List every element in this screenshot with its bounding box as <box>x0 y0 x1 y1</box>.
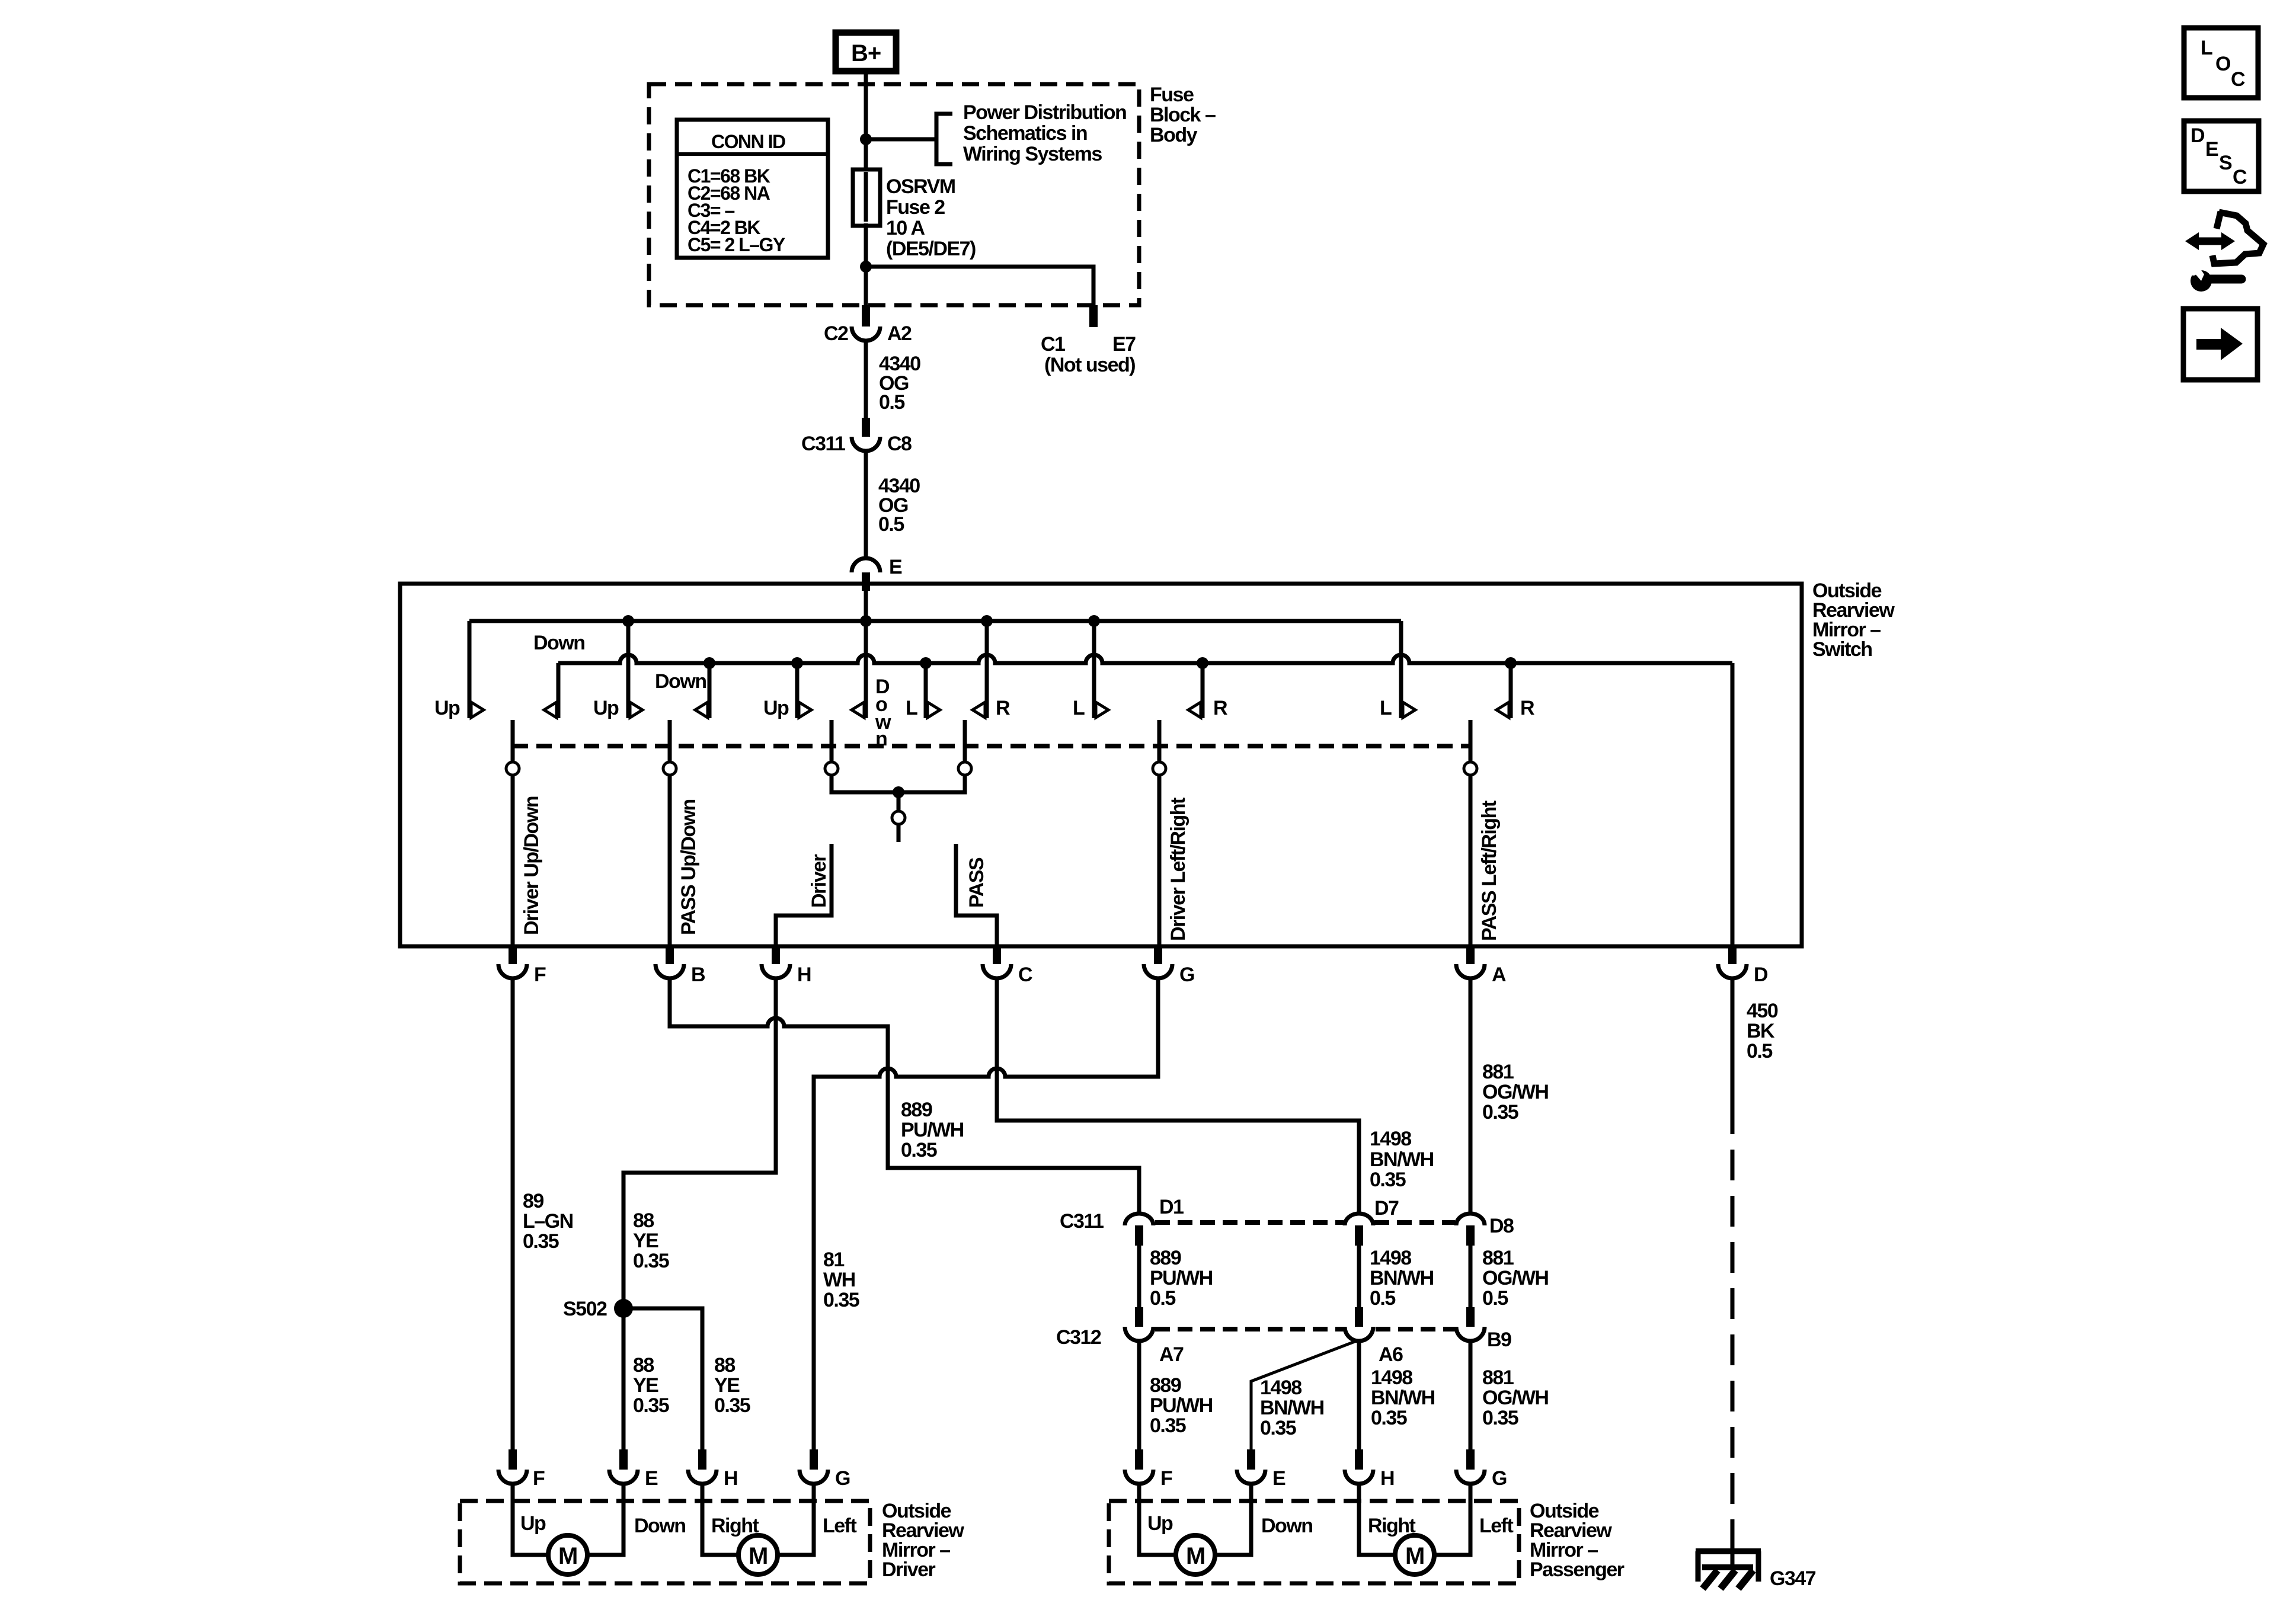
motor M driver left/right <box>738 1535 778 1574</box>
svg-text:0.35: 0.35 <box>714 1394 750 1417</box>
label OSRVM Fuse 2 10 A (DE5/DE7) <box>886 175 976 260</box>
svg-text:G: G <box>1179 964 1194 986</box>
node dot rail2 x1562 <box>920 657 932 669</box>
wire F to passenger up/down motor <box>1139 1482 1176 1555</box>
svg-text:M: M <box>749 1543 768 1569</box>
connector F pin stub <box>509 946 517 964</box>
svg-text:CONN ID: CONN ID <box>711 131 785 152</box>
svg-text:PASS Up/Down: PASS Up/Down <box>677 799 700 935</box>
svg-text:L: L <box>2201 37 2212 59</box>
passenger mirror connector F pin stub <box>1135 1449 1143 1470</box>
B+ battery feed symbol <box>836 33 896 71</box>
svg-text:S502: S502 <box>563 1298 607 1320</box>
svg-text:Down: Down <box>634 1515 686 1537</box>
Outside Rearview Mirror Driver dashed box <box>460 1501 870 1583</box>
contact triangle center Down <box>852 702 864 718</box>
svg-text:D7: D7 <box>1374 1197 1399 1219</box>
contact triangle Up 3 <box>799 702 811 718</box>
node dot rail1 x1665 <box>981 615 993 627</box>
contact triangle Down 2 <box>695 702 708 718</box>
svg-text:PASS Left/Right: PASS Left/Right <box>1478 801 1501 941</box>
contact triangle R 2 <box>1188 702 1201 718</box>
contact stub Up 3 <box>795 663 800 718</box>
svg-text:881: 881 <box>1482 1061 1514 1083</box>
wire 889 PU/WH 0.35 to passenger F <box>1137 1341 1141 1449</box>
label 4340 OG 0.5 <box>879 353 920 414</box>
svg-text:C312: C312 <box>1056 1326 1101 1349</box>
mechanical link dashed line <box>513 744 1470 748</box>
icon DESC box <box>2184 121 2259 191</box>
contact triangle Down 1 <box>544 702 557 718</box>
wire F to driver up/down motor <box>513 1482 548 1555</box>
svg-text:1498: 1498 <box>1260 1377 1302 1399</box>
svg-text:C: C <box>2231 68 2245 91</box>
wire pole to G <box>1157 775 1162 946</box>
driver mirror connector G pin stub <box>810 1449 818 1470</box>
svg-text:Block –: Block – <box>1150 104 1216 126</box>
connector A pin stub <box>1466 946 1475 964</box>
wire 1498 BN/WH 0.5 between connectors <box>1357 1246 1361 1307</box>
svg-text:E: E <box>889 556 902 578</box>
wire to Power Distribution reference bracket <box>866 137 935 142</box>
svg-text:WH: WH <box>823 1269 855 1291</box>
wire bus rail 2 with hops <box>558 655 1732 663</box>
wire H to passenger left/right motor <box>1359 1482 1395 1555</box>
wire 89 L-GN from F down to mirror <box>511 978 515 1449</box>
node: junction dot below fuse <box>860 261 872 273</box>
svg-text:1498: 1498 <box>1371 1366 1412 1389</box>
node dot selector yoke center <box>893 786 904 798</box>
node dot rail2 x1197 <box>703 657 715 669</box>
connector C <box>983 964 1011 978</box>
svg-text:88: 88 <box>714 1354 735 1377</box>
driver mirror connector F pin stub <box>509 1449 517 1470</box>
selector common circle <box>892 811 905 824</box>
label 89 L-GN 0.35 <box>523 1190 573 1253</box>
node dot rail1 x1060 <box>622 615 634 627</box>
svg-text:PU/WH: PU/WH <box>1150 1267 1213 1289</box>
svg-text:1498: 1498 <box>1370 1128 1411 1150</box>
icon forward arrow box <box>2183 309 2257 380</box>
label 881 OG/WH 0.35 (lower) <box>1482 1366 1548 1429</box>
selector pole right wire <box>963 720 967 762</box>
svg-text:F: F <box>534 964 546 986</box>
pole circle PASS Left/Right <box>1464 762 1477 775</box>
label Outside Rearview Mirror - Switch <box>1812 580 1895 661</box>
contact stub R 3 <box>1509 663 1513 718</box>
svg-text:Down: Down <box>1261 1515 1313 1537</box>
svg-text:S: S <box>2219 152 2232 174</box>
svg-text:Driver: Driver <box>808 854 830 908</box>
svg-text:A: A <box>1492 964 1506 986</box>
pin D7 stub <box>1355 1225 1363 1246</box>
svg-text:C311: C311 <box>1060 1210 1104 1233</box>
label 881 OG/WH 0.35 (upper) <box>1482 1061 1548 1124</box>
label 81 WH 0.35 <box>823 1249 859 1311</box>
connector F <box>498 964 527 978</box>
connector D pin stub <box>1728 946 1737 964</box>
passenger mirror connector H pin stub <box>1355 1449 1363 1470</box>
svg-text:R: R <box>996 697 1010 719</box>
svg-text:Power Distribution: Power Distribution <box>963 101 1126 124</box>
contact triangle R 3 <box>1496 702 1509 718</box>
svg-text:OSRVM: OSRVM <box>886 175 955 198</box>
label Power Distribution Schematics in Wiring Systems <box>963 101 1126 165</box>
pole circle Driver Left/Right <box>1153 762 1166 775</box>
svg-text:Down: Down <box>533 632 585 654</box>
wire 81 WH from G with hops to bottom G <box>814 978 1158 1449</box>
svg-text:YE: YE <box>633 1230 658 1252</box>
svg-text:0.35: 0.35 <box>1260 1417 1296 1439</box>
label 889 PU/WH 0.5 <box>1150 1247 1213 1310</box>
wire 881 OG/WH from A to D8 <box>1469 978 1473 1214</box>
wire 889 PU/WH 0.5 between connectors <box>1137 1246 1141 1307</box>
svg-text:E: E <box>2205 138 2218 161</box>
connector row C311 dashed line <box>1155 1220 1455 1225</box>
wire E to driver up/down motor <box>587 1482 623 1555</box>
connector C2/A2 pin stub <box>862 305 870 327</box>
label 1498 BN/WH 0.35 (upper) <box>1370 1128 1434 1191</box>
svg-text:Driver Up/Down: Driver Up/Down <box>520 796 543 935</box>
connector H <box>762 964 790 978</box>
contact PASS (bent wire to C) <box>956 844 997 946</box>
svg-text:L: L <box>906 697 917 719</box>
svg-text:M: M <box>1405 1543 1424 1569</box>
svg-text:889: 889 <box>901 1099 932 1121</box>
svg-text:88: 88 <box>633 1209 654 1232</box>
wire 1498 BN/WH diagonal branch to passenger E <box>1251 1340 1358 1449</box>
label D o w n (vertical stack) <box>875 676 891 750</box>
pole wire Driver Left/Right <box>1157 720 1162 762</box>
svg-text:881: 881 <box>1482 1247 1514 1269</box>
svg-text:0.5: 0.5 <box>1370 1287 1395 1310</box>
svg-text:D8: D8 <box>1489 1215 1514 1237</box>
svg-text:D: D <box>2191 124 2205 147</box>
svg-text:D1: D1 <box>1159 1196 1184 1218</box>
svg-text:H: H <box>797 964 811 986</box>
svg-text:BN/WH: BN/WH <box>1370 1148 1434 1171</box>
pole circle Driver Up/Down <box>506 762 519 775</box>
svg-text:Up: Up <box>593 697 619 719</box>
node dot rail1 x1461 <box>860 615 872 627</box>
svg-text:O: O <box>2215 53 2231 75</box>
svg-text:450: 450 <box>1747 1000 1778 1022</box>
wire 889 PU/WH from B with hop over H wire <box>670 978 1139 1214</box>
label 1498 BN/WH 0.5 <box>1370 1247 1434 1310</box>
pin D8 stub <box>1466 1225 1475 1246</box>
connector G pin stub <box>1154 946 1162 964</box>
pole wire PASS Left/Right <box>1469 720 1473 762</box>
contact triangle L 2 <box>1096 702 1108 718</box>
svg-text:0.35: 0.35 <box>1370 1169 1406 1191</box>
svg-text:889: 889 <box>1150 1374 1181 1397</box>
svg-text:BN/WH: BN/WH <box>1371 1387 1435 1409</box>
svg-text:Up: Up <box>763 697 789 719</box>
label 88 YE 0.35 (right branch) <box>714 1354 750 1417</box>
Outside Rearview Mirror Switch box <box>400 584 1802 946</box>
svg-text:0.35: 0.35 <box>1482 1101 1518 1124</box>
contact stub Up 2 <box>626 621 631 718</box>
node: junction dot on B+ wire <box>860 133 872 145</box>
svg-text:1498: 1498 <box>1370 1247 1411 1269</box>
wire E to passenger up/down motor <box>1215 1482 1251 1555</box>
svg-text:R: R <box>1213 697 1227 719</box>
selector common wire upper <box>897 792 901 811</box>
wire pole to B <box>668 775 672 946</box>
svg-text:0.5: 0.5 <box>1482 1287 1508 1310</box>
svg-text:C: C <box>1018 964 1032 986</box>
svg-text:C311: C311 <box>801 433 845 455</box>
svg-text:PASS: PASS <box>965 857 988 908</box>
passenger mirror connector G <box>1456 1470 1485 1484</box>
driver mirror connector G <box>800 1470 828 1484</box>
svg-text:0.5: 0.5 <box>878 513 904 536</box>
node dot rail2 x2029 <box>1197 657 1208 669</box>
node dot rail1 x1846 <box>1088 615 1100 627</box>
svg-text:Driver Left/Right: Driver Left/Right <box>1167 798 1189 941</box>
svg-text:Schematics in: Schematics in <box>963 122 1087 145</box>
pin A7 stub upper <box>1135 1307 1143 1327</box>
svg-text:G347: G347 <box>1770 1567 1816 1590</box>
connector H pin stub <box>772 946 780 964</box>
contact stub L 1 <box>924 663 928 718</box>
label 1498 BN/WH 0.35 (diagonal branch) <box>1260 1377 1324 1439</box>
wire bus rail 1 <box>469 619 1401 623</box>
wire 881 OG/WH 0.5 between connectors <box>1469 1246 1473 1307</box>
connector C311 pin D1 <box>1125 1214 1153 1225</box>
svg-text:0.5: 0.5 <box>879 391 904 414</box>
svg-text:OG/WH: OG/WH <box>1482 1387 1548 1409</box>
svg-text:G: G <box>835 1467 850 1490</box>
svg-text:A7: A7 <box>1159 1343 1184 1366</box>
svg-text:F: F <box>533 1467 545 1490</box>
contact Driver (bent wire to H) <box>776 844 832 946</box>
svg-text:0.35: 0.35 <box>633 1394 669 1417</box>
svg-text:E: E <box>645 1467 658 1490</box>
wire 81 WH from C down to D7 <box>997 978 1359 1214</box>
connector G <box>1144 964 1172 978</box>
svg-text:PU/WH: PU/WH <box>901 1119 964 1141</box>
pin A6 stub upper <box>1355 1307 1363 1327</box>
svg-text:OG/WH: OG/WH <box>1482 1267 1548 1289</box>
wire G to driver left/right motor <box>778 1482 814 1555</box>
svg-text:Fuse: Fuse <box>1150 84 1194 106</box>
svg-text:Left: Left <box>823 1515 857 1537</box>
connector D <box>1718 964 1747 978</box>
connector C312 pin A7 <box>1125 1327 1153 1341</box>
contact triangle R 1 <box>973 702 985 718</box>
label 1498 BN/WH 0.35 (lower) <box>1371 1366 1435 1429</box>
label 881 OG/WH 0.5 <box>1482 1247 1548 1310</box>
pin B9 stub upper <box>1466 1307 1475 1327</box>
wire H to driver left/right motor <box>702 1482 738 1555</box>
svg-text:89: 89 <box>523 1190 543 1212</box>
wire dot to fuse <box>864 139 868 170</box>
node dot rail2 x2549 <box>1505 657 1517 669</box>
wire 88 YE from H to S502 <box>623 978 776 1308</box>
svg-text:C2: C2 <box>824 322 848 345</box>
svg-text:0.35: 0.35 <box>1371 1407 1407 1429</box>
svg-text:L–GN: L–GN <box>523 1210 573 1233</box>
svg-text:Down: Down <box>655 670 706 693</box>
label Fuse Block - Body <box>1150 84 1216 146</box>
svg-text:C8: C8 <box>887 433 912 455</box>
svg-text:B9: B9 <box>1487 1329 1511 1351</box>
svg-text:0.35: 0.35 <box>901 1139 937 1161</box>
svg-text:BN/WH: BN/WH <box>1370 1267 1434 1289</box>
passenger mirror connector H <box>1345 1470 1373 1484</box>
pin E stub into switch <box>862 572 870 591</box>
svg-text:Passenger: Passenger <box>1530 1558 1625 1581</box>
label 450 BK 0.5 <box>1747 1000 1778 1062</box>
label 4340 OG 0.5 <box>878 475 920 536</box>
fuse OSRVM Fuse 2 10 A <box>853 169 880 226</box>
svg-text:L: L <box>1380 697 1392 719</box>
svg-text:E7: E7 <box>1112 333 1136 356</box>
label 889 PU/WH 0.35 (lower) <box>1150 1374 1213 1437</box>
contact stub Up 1 <box>468 621 472 718</box>
svg-text:B+: B+ <box>851 40 881 66</box>
svg-text:Fuse 2: Fuse 2 <box>886 196 945 219</box>
svg-text:10 A: 10 A <box>886 217 925 239</box>
selector pole left wire <box>830 720 834 762</box>
svg-text:H: H <box>724 1467 737 1490</box>
wire 88 YE S502 right branch to H <box>623 1308 702 1449</box>
wire fuse to box bottom <box>864 223 868 305</box>
icon LOC box <box>2184 28 2258 98</box>
svg-text:PU/WH: PU/WH <box>1150 1394 1213 1417</box>
bracket Power Distribution reference <box>936 114 952 164</box>
svg-text:R: R <box>1520 697 1534 719</box>
svg-text:H: H <box>1380 1467 1394 1490</box>
connector C312 pin B9 <box>1456 1327 1485 1341</box>
motor M passenger left/right <box>1395 1535 1434 1574</box>
svg-text:A6: A6 <box>1379 1343 1403 1366</box>
connector A <box>1456 964 1485 978</box>
svg-text:A2: A2 <box>887 322 912 345</box>
svg-text:Right: Right <box>1368 1515 1416 1537</box>
pole wire Driver Up/Down <box>511 720 515 762</box>
contact stub L 2 <box>1092 621 1096 718</box>
svg-text:0.35: 0.35 <box>1482 1407 1518 1429</box>
svg-text:M: M <box>1186 1543 1205 1569</box>
icon mirror adjustment (arrow, mirror, wrench) <box>2185 212 2263 292</box>
connector B pin stub <box>666 946 674 964</box>
svg-text:YE: YE <box>633 1374 658 1397</box>
svg-text:C1: C1 <box>1041 333 1065 356</box>
svg-text:0.35: 0.35 <box>523 1230 559 1253</box>
svg-text:0.5: 0.5 <box>1150 1287 1175 1310</box>
svg-text:BN/WH: BN/WH <box>1260 1397 1324 1419</box>
contact triangle Up 1 <box>471 702 484 718</box>
driver mirror connector E <box>609 1470 638 1484</box>
svg-text:YE: YE <box>714 1374 740 1397</box>
passenger mirror connector F <box>1125 1470 1153 1484</box>
contact triangle L 3 <box>1403 702 1415 718</box>
driver mirror connector E pin stub <box>619 1449 628 1470</box>
connector E of switch <box>852 558 880 572</box>
svg-text:Wiring Systems: Wiring Systems <box>963 143 1102 165</box>
connector C312 pin A6 <box>1345 1327 1373 1341</box>
passenger mirror connector G pin stub <box>1466 1449 1475 1470</box>
contact triangle L 1 <box>928 702 940 718</box>
contact stub center Down <box>864 621 868 718</box>
svg-text:E: E <box>1272 1467 1285 1490</box>
motor M passenger up/down <box>1176 1535 1215 1574</box>
svg-text:Left: Left <box>1479 1515 1514 1537</box>
passenger mirror connector E pin stub <box>1247 1449 1255 1470</box>
svg-text:81: 81 <box>823 1249 844 1271</box>
wire G to passenger left/right motor <box>1434 1482 1470 1555</box>
wire rail2 right end down to D <box>1731 663 1735 946</box>
contact triangle Up 2 <box>630 702 642 718</box>
Fuse Block - Body dashed box <box>649 84 1139 305</box>
pin D1 stub <box>1135 1225 1143 1246</box>
svg-text:M: M <box>558 1543 577 1569</box>
driver mirror connector H pin stub <box>698 1449 706 1470</box>
contact stub R 2 <box>1201 663 1205 718</box>
ground G347 symbol <box>1696 1551 1761 1589</box>
selector yoke U bracket <box>832 775 965 792</box>
svg-text:OG/WH: OG/WH <box>1482 1081 1548 1103</box>
svg-text:Switch: Switch <box>1812 638 1872 661</box>
wire feed from E into switch <box>864 591 868 621</box>
connector C311/C8 <box>852 437 880 451</box>
svg-text:0.5: 0.5 <box>1747 1040 1772 1062</box>
svg-text:B: B <box>691 964 705 986</box>
svg-text:Body: Body <box>1150 124 1198 146</box>
connector C311 pin D8 <box>1456 1214 1485 1225</box>
svg-text:881: 881 <box>1482 1366 1514 1389</box>
wire pole to F <box>511 775 515 946</box>
pole wire PASS Up/Down <box>668 720 672 762</box>
connector C311/C8 pin stub <box>862 418 870 437</box>
CONN ID table <box>677 120 828 258</box>
wire B+ to fuse block <box>864 74 868 139</box>
label Outside Rearview Mirror - Passenger <box>1530 1500 1625 1581</box>
svg-text:L: L <box>1073 697 1085 719</box>
svg-text:Up: Up <box>1147 1512 1173 1535</box>
connector row C312 dashed line <box>1155 1327 1455 1331</box>
wire 4340 OG 0.5 (upper) <box>864 341 868 418</box>
label Outside Rearview Mirror - Driver <box>882 1500 964 1581</box>
connector C pin stub <box>993 946 1001 964</box>
label 88 YE 0.35 (upper) <box>633 1209 669 1272</box>
selector common stub <box>897 824 901 842</box>
wire 450 BK from D (solid then dashed) <box>1731 978 1735 1103</box>
label 889 PU/WH 0.35 (upper) <box>901 1099 964 1161</box>
pin E7 stub (not used) <box>1089 305 1098 327</box>
svg-text:C: C <box>2233 166 2247 188</box>
svg-text:Up: Up <box>434 697 460 719</box>
svg-text:G: G <box>1492 1467 1507 1490</box>
label 88 YE 0.35 (left branch) <box>633 1354 669 1417</box>
node dot rail2 x1345 <box>791 657 803 669</box>
pole circle PASS Up/Down <box>663 762 676 775</box>
svg-text:C5= 2 L–GY: C5= 2 L–GY <box>687 234 785 255</box>
splice S502 <box>614 1299 633 1318</box>
svg-text:Driver: Driver <box>882 1558 936 1581</box>
selector pole right circle <box>958 762 971 775</box>
motor M driver up/down <box>548 1535 587 1574</box>
svg-text:88: 88 <box>633 1354 654 1377</box>
contact stub L 3 <box>1399 621 1403 718</box>
connector B <box>655 964 684 978</box>
svg-text:BK: BK <box>1747 1020 1775 1042</box>
wire 88 YE S502 left branch to E <box>622 1308 626 1449</box>
driver mirror connector H <box>688 1470 717 1484</box>
contact stub Down 2 <box>708 663 712 718</box>
